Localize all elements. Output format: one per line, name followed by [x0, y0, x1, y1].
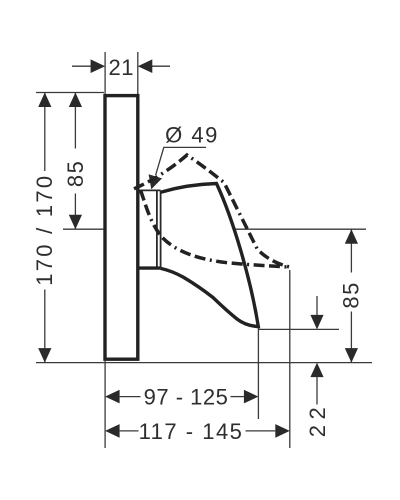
svg-text:Ø 49: Ø 49 [165, 123, 219, 148]
svg-text:85: 85 [63, 160, 88, 187]
svg-text:22: 22 [305, 402, 330, 437]
svg-text:85: 85 [338, 281, 363, 308]
svg-text:21: 21 [109, 55, 134, 80]
svg-text:170 / 170: 170 / 170 [32, 174, 57, 286]
svg-text:117 - 145: 117 - 145 [139, 419, 244, 444]
svg-text:97 - 125: 97 - 125 [144, 384, 229, 409]
